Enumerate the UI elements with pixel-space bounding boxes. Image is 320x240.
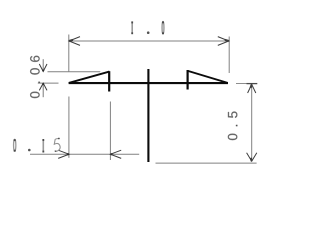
profile main horizontal line bbox=[69, 82, 228, 84]
arrow left of top dimension bbox=[69, 37, 80, 46]
extension line left of top dimension bbox=[68, 35, 70, 72]
arrow up of 0.06 dimension bbox=[39, 83, 47, 90]
dimension text 1.1 top bbox=[131, 21, 164, 34]
arrow right-pointing of 0.15 dimension bbox=[58, 150, 69, 158]
extension line bottom of 0.5 dimension bbox=[156, 162, 257, 164]
arrow up of 0.5 dimension bbox=[248, 84, 256, 93]
right triangle vertical edge bbox=[187, 70, 189, 90]
right triangle hypotenuse bbox=[188, 71, 228, 83]
dimension line 0.06 lower tail bbox=[42, 83, 44, 97]
dimension text 0.5 rotated bbox=[228, 112, 238, 141]
arrow right of top dimension bbox=[218, 37, 229, 46]
extension line top of 0.06 dimension bbox=[48, 71, 101, 73]
dimension line 0.5 bbox=[251, 84, 253, 162]
dimension line 0.06 upper tail bbox=[42, 59, 44, 71]
left triangle hypotenuse bbox=[69, 72, 110, 83]
dimension line 0.15 bbox=[30, 153, 139, 155]
arrow down of 0.5 dimension bbox=[247, 153, 257, 161]
dimension line top bbox=[69, 40, 229, 42]
extension line left of 0.15 dimension bbox=[68, 97, 70, 158]
dimension text 0.15 bbox=[14, 138, 61, 153]
profile stem vertical line bbox=[147, 69, 149, 162]
extension line bottom of 0.06 dimension bbox=[38, 82, 59, 84]
extension line right of 0.15 dimension bbox=[109, 102, 111, 161]
extension line top of 0.5 dimension bbox=[236, 83, 247, 85]
dimension text 0.06 rotated bbox=[30, 56, 40, 98]
extension line right of top dimension bbox=[228, 37, 230, 74]
arrow left-pointing of 0.15 dimension bbox=[110, 150, 121, 158]
left triangle vertical edge bbox=[108, 71, 110, 91]
arrow down of 0.06 dimension bbox=[39, 64, 47, 72]
